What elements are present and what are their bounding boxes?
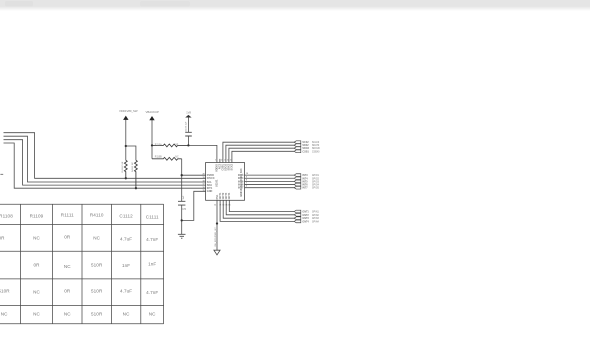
svg-text:R4110: R4110 [90,213,104,218]
svg-text:SDAT0: SDAT0 [312,144,320,147]
svg-text:SCLK0: SCLK0 [312,142,320,144]
junction cap/gnd node [181,219,183,221]
power symbol 1V8 small [185,111,191,118]
svg-text:GPIN1: GPIN1 [312,212,320,214]
svg-text:C1111: C1111 [146,215,159,220]
power symbol VBACKUP [146,110,160,120]
connector tag G1-4 [294,150,301,153]
svg-text:11: 11 [214,205,216,207]
svg-text:NC: NC [64,312,71,317]
wire bottom pin5 [229,200,294,211]
svg-text:CSBX0: CSBX0 [312,151,320,153]
svg-text:1V8: 1V8 [186,111,191,115]
connector tag G1-1 [294,141,301,144]
svg-text:VDD1V80_SW: VDD1V80_SW [119,109,138,113]
svg-text:19: 19 [202,177,204,179]
junction node A [187,144,189,146]
svg-text:R1109: R1109 [30,214,44,219]
svg-text:4.7nF: 4.7nF [146,290,158,295]
svg-text:NC: NC [1,312,8,317]
wire power1 stem [125,120,127,161]
power symbol VDD1V80 [119,109,138,120]
capacitor C1110 plates [178,201,185,205]
wire cap to gnd junction [181,205,183,234]
wire bus4 [4,143,206,188]
svg-text:0R: 0R [0,236,5,241]
wire power3 stem [187,117,189,132]
svg-text:R1108: R1108 [0,214,13,219]
connector tag G1-3 [294,147,301,150]
svg-text:17: 17 [202,184,204,186]
stub top pin6 NC [219,159,221,163]
svg-text:5: 5 [230,160,231,162]
resistor R110A [152,144,188,147]
connector tag G1-2 [294,144,301,147]
svg-text:13: 13 [222,205,224,207]
svg-text:R1111: R1111 [61,213,74,218]
junction node power1/branch [125,145,127,147]
svg-text:1nF: 1nF [122,263,130,268]
svg-text:510R: 510R [91,289,103,294]
wire right pin2 [245,177,295,179]
wire branch to R4112 [126,146,136,160]
svg-text:R110A: R110A [155,143,162,146]
svg-text:0R: 0R [175,144,178,146]
svg-text:GPIO4: GPIO4 [312,185,320,187]
junction R4112 on bus4 [135,187,137,189]
svg-text:SW_MCUPWR_INT: SW_MCUPWR_INT [215,227,217,247]
svg-text:IOVCC: IOVCC [207,177,215,180]
svg-text:BMI160AB QFN20_3X3: BMI160AB QFN20_3X3 [239,168,243,197]
svg-text:INT7: INT7 [302,187,308,190]
wire power2 stem [151,120,153,145]
top window band [0,0,590,7]
connector group 2 [294,174,301,189]
svg-text:GPIO1: GPIO1 [312,175,320,177]
connector tag G3-1 [294,210,301,213]
svg-text:1: 1 [215,160,216,162]
table [0,204,164,324]
svg-text:NC: NC [33,290,40,295]
svg-text:GPIO3: GPIO3 [312,181,320,183]
svg-text:NC: NC [175,157,179,159]
junction pin1 node [181,174,183,176]
wire down to R110B [151,145,153,158]
svg-text:20: 20 [202,174,204,176]
svg-text:NC: NC [64,264,71,269]
svg-text:GNT4: GNT4 [228,192,231,199]
junction bottom net [216,222,218,224]
svg-text:0R: 0R [64,235,71,240]
svg-text:15: 15 [202,190,204,192]
svg-text:0R: 0R [64,289,71,294]
junction power2 node [151,144,153,146]
svg-text:9: 9 [246,176,247,178]
IC pin labels bottom (rotated) [216,192,231,199]
svg-text:GNT4: GNT4 [302,220,309,223]
svg-text:8: 8 [246,179,247,181]
pin number ticks top [215,159,231,162]
pin numbers bottom [214,204,230,207]
svg-text:GND: GND [207,190,213,193]
wire bottom pin4 [226,200,294,215]
svg-text:VBACKUP: VBACKUP [146,110,160,114]
svg-text:CSB1: CSB1 [302,150,309,153]
connector tag G3-4 [294,220,301,223]
wire bus2 [4,136,206,182]
wire right pin1 [245,174,295,176]
wire node A to IC top pin1 [188,145,217,162]
svg-text:GPIN4: GPIN4 [312,221,320,223]
svg-text:C5: C5 [182,207,186,211]
wire cap to node A [187,136,189,145]
svg-text:NC: NC [149,312,156,317]
connector tag G2-4 [294,183,301,186]
svg-text:R4112 NC: R4112 NC [132,162,134,172]
left edge net label fragment [0,173,3,175]
wire bus3 [4,140,206,185]
pin number ticks left [202,174,204,192]
svg-text:7: 7 [246,183,247,185]
svg-text:3: 3 [224,160,225,162]
svg-text:R4111 51K: R4111 51K [122,161,124,172]
resistor R4112 [134,160,137,188]
op IC U1101 body [206,163,245,201]
wire top pin4 [229,148,294,162]
IC pin labels right [238,174,244,190]
connector tag G2-3 [294,180,301,183]
connector tag G3-2 [294,213,301,216]
svg-text:SCX2: SCX2 [231,163,234,170]
wire node to IC pin DVDD [182,174,206,176]
svg-text:GPIO2: GPIO2 [312,178,320,180]
svg-text:1nF: 1nF [148,262,156,267]
svg-text:SDOU0: SDOU0 [312,148,321,150]
svg-text:C1112: C1112 [119,214,133,219]
connector group 1 [294,141,301,153]
connector tag G3-3 [294,217,301,220]
svg-text:4.7uF: 4.7uF [120,289,132,294]
wire bottom pin3 [223,200,294,218]
wire top pin5 [232,151,294,162]
wire right pin4 [245,184,295,186]
svg-text:NC: NC [123,312,130,317]
wire gnd pin route [182,191,206,220]
svg-text:GPIN3: GPIN3 [312,218,320,220]
svg-text:U1101: U1101 [215,179,219,187]
pin number tick right [246,173,248,188]
wire right pin5 [245,187,295,189]
svg-text:GPIO5: GPIO5 [312,188,320,190]
svg-text:C1109 1uF: C1109 1uF [185,121,187,132]
svg-text:NC: NC [33,236,40,241]
svg-text:NC: NC [33,312,40,317]
svg-text:0R: 0R [33,263,40,268]
wire top pin2 [223,142,294,162]
svg-text:4.7uF: 4.7uF [120,237,132,242]
svg-text:510R: 510R [0,289,10,294]
svg-text:10: 10 [246,173,248,175]
wire bottom pin1 net [216,200,218,250]
resistor R110B [152,157,182,160]
svg-text:18: 18 [202,181,204,183]
table grid horizontals [0,204,164,324]
svg-text:4.7nF: 4.7nF [146,237,158,242]
wire bus1 [4,133,206,179]
wire bottom pin2 [220,200,294,221]
svg-text:R110B: R110B [155,157,162,159]
svg-text:6: 6 [246,186,247,188]
wire right pin3 [245,180,295,182]
table grid verticals [20,204,163,324]
net arrow SW out [214,250,220,255]
connector tag G2-5 [294,186,301,189]
IC pin labels top (rotated) [216,163,234,172]
svg-text:GPIN2: GPIN2 [312,215,320,217]
wire R110B output down to pin1 node [181,159,183,202]
capacitor C1109 plates [185,132,192,136]
connector labels column A [302,141,309,223]
connector labels column B [312,142,321,223]
svg-text:1uF: 1uF [183,195,185,199]
svg-text:NC: NC [93,236,100,241]
wire top pin3 [226,145,294,162]
svg-text:15: 15 [228,205,230,207]
svg-text:16: 16 [202,187,204,189]
svg-text:510R: 510R [91,263,103,268]
IC pin labels left [207,174,215,193]
resistor R4111 [124,160,127,178]
connector tag G2-1 [294,174,301,177]
svg-text:2: 2 [221,160,222,162]
svg-text:510R: 510R [91,312,103,317]
ground symbol [178,234,186,238]
connector group 3 [294,210,301,223]
svg-text:12: 12 [219,205,221,207]
junction R4111 on bus1 [125,177,127,179]
connector tag G2-2 [294,177,301,180]
